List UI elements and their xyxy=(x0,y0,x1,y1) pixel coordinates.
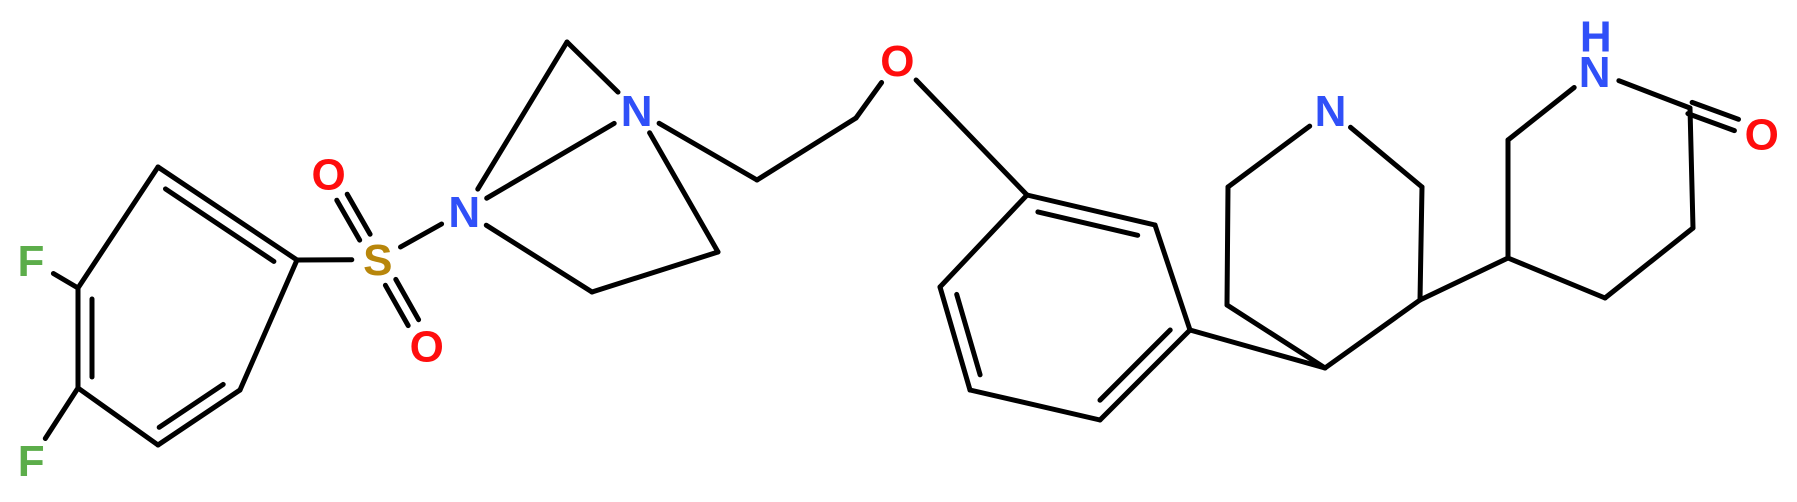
bond B3-B4 xyxy=(970,390,1100,420)
bond B2-B3 xyxy=(940,287,970,390)
bond CC-O4 xyxy=(1688,114,1735,131)
bond P3-N2 xyxy=(650,133,718,252)
bond S-O1 xyxy=(347,194,370,234)
aromatic inner C1-C2 xyxy=(166,189,274,262)
bond N1-N2 xyxy=(487,123,615,198)
bond F1-C6 xyxy=(53,274,78,289)
aromatic inner B6-B1 xyxy=(1038,212,1138,235)
svg-text:N: N xyxy=(621,87,653,136)
bond N3-U1 xyxy=(1228,126,1310,187)
bond U2b-U2 xyxy=(1420,187,1422,300)
svg-text:N: N xyxy=(448,188,480,237)
svg-text:O: O xyxy=(1745,111,1779,160)
bond C2-C3 xyxy=(240,260,297,390)
bond U2-N3 xyxy=(1351,127,1423,187)
svg-text:H: H xyxy=(1580,13,1612,62)
bond S-N1 xyxy=(401,224,442,247)
bond B5-SP xyxy=(1190,330,1325,368)
bond O3-B1 xyxy=(916,80,1027,195)
svg-text:O: O xyxy=(410,323,444,372)
svg-text:F: F xyxy=(18,437,45,486)
aromatic inner B4-B5 xyxy=(1100,330,1170,400)
bond B6-B1 xyxy=(1027,195,1155,225)
bond V1-V1b xyxy=(1506,140,1511,258)
bond S-O2 xyxy=(396,279,419,319)
bond B1-B2 xyxy=(940,195,1027,287)
bond V3-V2 xyxy=(1605,228,1693,298)
bond C3-C4 xyxy=(158,390,240,445)
bond N1-P2 xyxy=(486,225,592,292)
bond N1-P1 xyxy=(478,42,567,189)
bond F2-C5 xyxy=(45,388,78,439)
bond C2-S xyxy=(297,257,352,262)
aromatic inner C5-C6 xyxy=(90,299,95,377)
bond CC-N4 xyxy=(1619,81,1690,108)
aromatic inner C3-C4 xyxy=(159,384,223,427)
bond SP-U2b xyxy=(1325,300,1420,368)
bond C1-C2 xyxy=(158,167,297,260)
svg-text:O: O xyxy=(311,150,345,199)
bond U1-U1b xyxy=(1227,187,1228,305)
bond Q1-Q2 xyxy=(757,118,856,180)
bond B5-B6 xyxy=(1155,225,1190,330)
bond V1b-V3 xyxy=(1508,258,1605,298)
bond S-O1 xyxy=(337,200,360,240)
svg-text:S: S xyxy=(363,236,392,285)
bond Q2-O3 xyxy=(856,83,882,119)
svg-text:O: O xyxy=(880,37,914,86)
bond U2b-V1b xyxy=(1420,258,1508,300)
bond C4-C5 xyxy=(78,388,158,445)
svg-text:F: F xyxy=(18,237,45,286)
bond B4-B5 xyxy=(1100,330,1190,420)
bond N2-Q1 xyxy=(659,123,757,180)
bond C5-C6 xyxy=(76,288,81,388)
bond U1b-SP xyxy=(1227,305,1325,368)
aromatic inner B2-B3 xyxy=(957,294,980,374)
bond P1-N2 xyxy=(567,42,618,92)
bond C6-C1 xyxy=(78,167,158,288)
bond CC-O4 xyxy=(1692,102,1738,119)
svg-text:N: N xyxy=(1315,87,1347,136)
bond P2-P3 xyxy=(592,252,718,292)
bond N4-V1 xyxy=(1508,88,1574,141)
bond S-O2 xyxy=(385,285,408,325)
bond V2-CC xyxy=(1690,108,1693,228)
